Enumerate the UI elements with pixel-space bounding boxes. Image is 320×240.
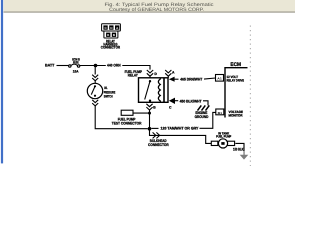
svg-text:Courtesy of GENERAL MOTORS COR: Courtesy of GENERAL MOTORS CORP. <box>109 7 204 13</box>
svg-text:CONNECTOR: CONNECTOR <box>101 46 121 50</box>
svg-text:CONNECTOR: CONNECTOR <box>148 143 169 147</box>
svg-text:Fig. 4: Typical Fuel Pump Rela: Fig. 4: Typical Fuel Pump Relay Schemati… <box>105 2 215 8</box>
svg-text:MONITOR: MONITOR <box>229 114 244 118</box>
svg-text:FUEL PUMP: FUEL PUMP <box>216 135 232 139</box>
svg-text:RELAY: RELAY <box>128 74 138 78</box>
svg-text:GROUND: GROUND <box>195 115 209 119</box>
svg-text:15A: 15A <box>73 69 79 73</box>
svg-text:TEST CONNECTOR: TEST CONNECTOR <box>112 122 142 126</box>
svg-text:D: D <box>154 72 157 76</box>
svg-text:RELAY DRIVE: RELAY DRIVE <box>227 79 245 83</box>
svg-text:150 BLK: 150 BLK <box>233 147 244 151</box>
svg-text:E: E <box>107 33 109 37</box>
svg-text:ECM: ECM <box>230 62 241 68</box>
svg-text:C: C <box>169 105 172 109</box>
svg-text:465 DRN/WHT: 465 DRN/WHT <box>180 77 203 81</box>
svg-text:A: A <box>172 71 175 75</box>
svg-text:SWITCH: SWITCH <box>104 95 113 99</box>
svg-text:120 TAN/WHT OR GRY: 120 TAN/WHT OR GRY <box>161 127 199 131</box>
svg-text:OIL: OIL <box>104 86 108 90</box>
svg-text:450 BLK/WHT: 450 BLK/WHT <box>180 99 203 103</box>
svg-text:FUSE: FUSE <box>73 61 79 65</box>
svg-text:A1: A1 <box>217 77 222 81</box>
svg-text:BATT: BATT <box>45 63 55 67</box>
svg-text:440 ORN: 440 ORN <box>107 63 121 67</box>
svg-text:B: B <box>153 105 156 109</box>
svg-text:B1: B1 <box>218 111 223 115</box>
